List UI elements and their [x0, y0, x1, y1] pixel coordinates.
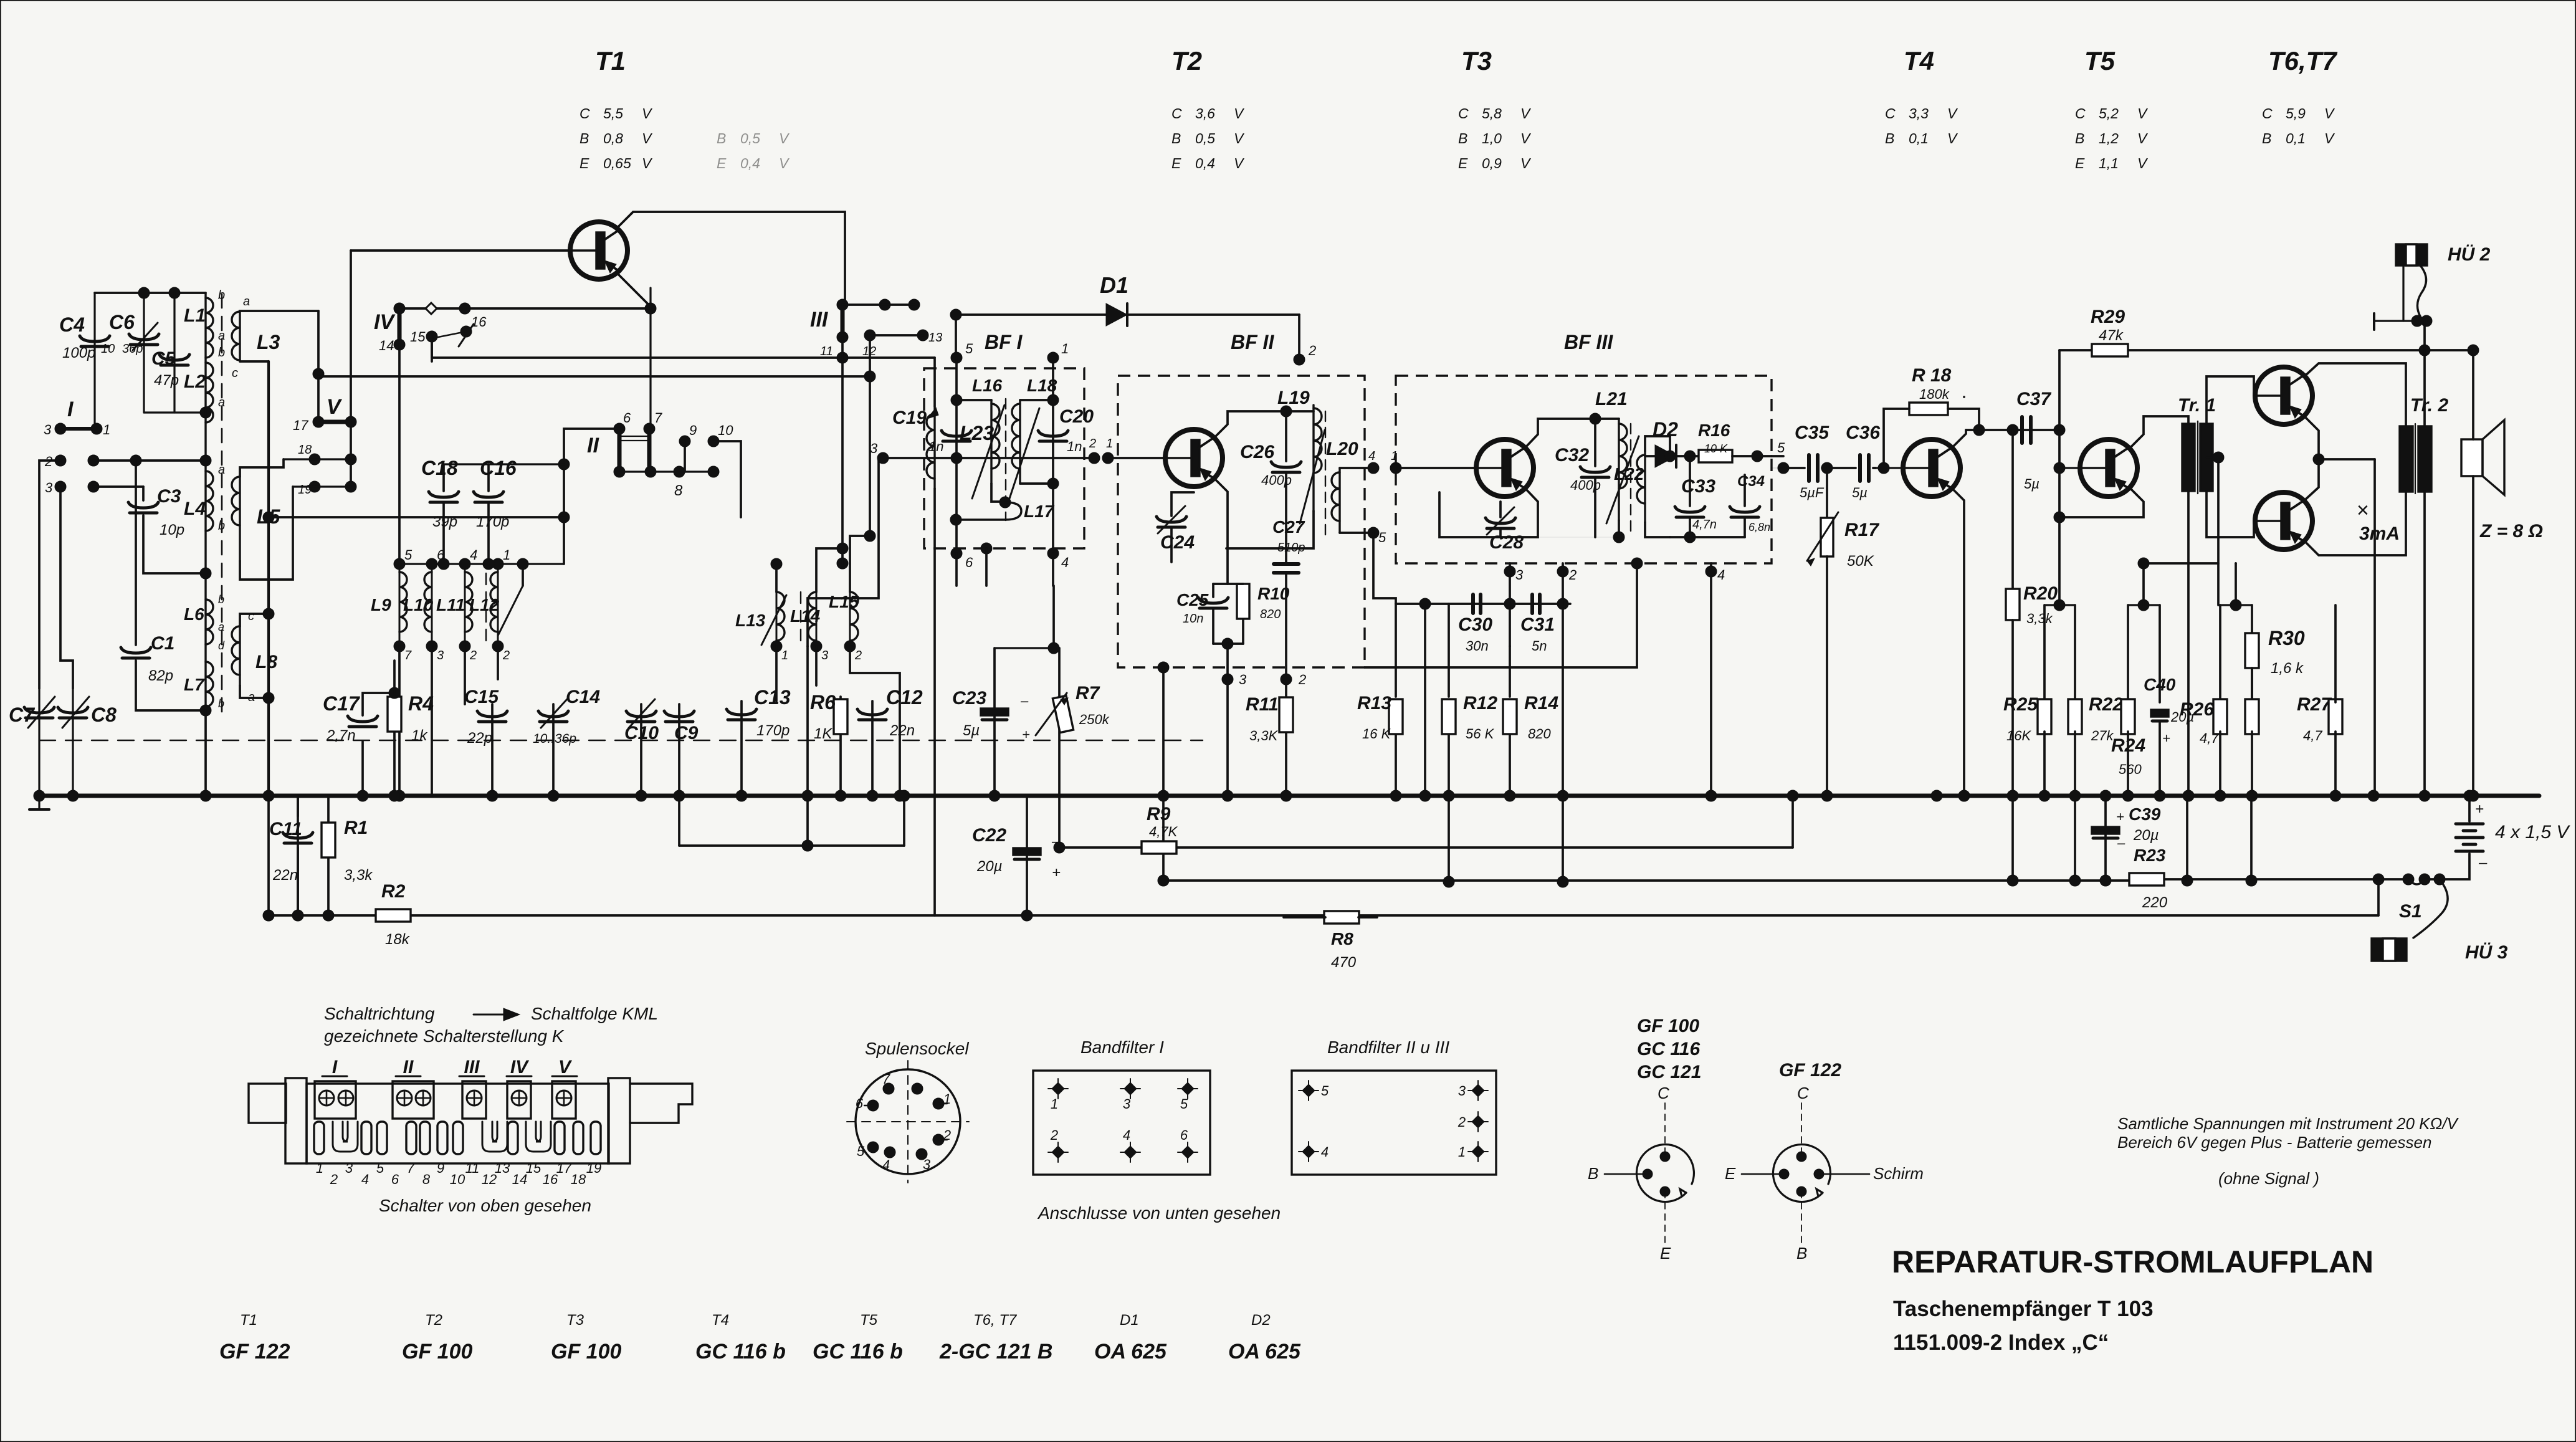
svg-text:10n: 10n	[1183, 612, 1203, 626]
svg-text:L17: L17	[1024, 502, 1055, 521]
svg-text:OA 625: OA 625	[1228, 1340, 1301, 1363]
svg-text:1: 1	[103, 422, 110, 437]
svg-text:T4: T4	[1904, 46, 1934, 75]
svg-text:B: B	[2262, 130, 2271, 146]
svg-text:GF 100: GF 100	[402, 1340, 472, 1363]
svg-text:II: II	[403, 1057, 414, 1077]
svg-text:T2: T2	[1171, 46, 1202, 75]
svg-text:9: 9	[437, 1160, 444, 1176]
svg-text:3: 3	[870, 441, 878, 456]
svg-text:T1: T1	[240, 1312, 257, 1329]
svg-text:0,4: 0,4	[740, 155, 760, 171]
svg-text:1k: 1k	[411, 727, 428, 744]
svg-text:L21: L21	[1595, 389, 1628, 409]
svg-text:C14: C14	[566, 687, 600, 707]
svg-text:5: 5	[404, 547, 413, 563]
svg-text:BF II: BF II	[1231, 331, 1274, 353]
svg-text:V: V	[1234, 130, 1245, 146]
svg-text:1: 1	[1106, 437, 1113, 451]
svg-text:1K: 1K	[814, 725, 832, 742]
svg-text:1,0: 1,0	[1482, 130, 1502, 146]
svg-text:R13: R13	[1357, 693, 1391, 714]
svg-text:250k: 250k	[1079, 712, 1110, 727]
svg-text:V: V	[1234, 105, 1245, 122]
svg-text:3,6: 3,6	[1195, 105, 1215, 122]
svg-text:V: V	[1520, 105, 1532, 122]
svg-text:c: c	[232, 366, 238, 380]
svg-text:3: 3	[437, 649, 444, 662]
svg-text:T4: T4	[712, 1312, 729, 1329]
svg-text:L15: L15	[829, 592, 859, 611]
svg-text:–: –	[2117, 835, 2125, 851]
svg-text:3,3K: 3,3K	[1249, 728, 1279, 743]
svg-text:18: 18	[571, 1172, 586, 1187]
svg-text:R14: R14	[1524, 693, 1558, 714]
svg-text:C11: C11	[269, 819, 302, 839]
svg-text:13: 13	[928, 331, 942, 345]
svg-text:R27: R27	[2297, 694, 2332, 715]
svg-text:20µ: 20µ	[2133, 827, 2159, 844]
svg-text:+: +	[1022, 727, 1030, 742]
svg-text:9: 9	[689, 423, 697, 438]
svg-text:3: 3	[44, 422, 52, 437]
svg-text:R16: R16	[1698, 421, 1730, 440]
svg-text:4: 4	[1123, 1127, 1130, 1143]
svg-text:V: V	[1520, 155, 1532, 171]
svg-text:12: 12	[482, 1172, 497, 1187]
svg-text:V: V	[327, 395, 343, 419]
svg-text:16: 16	[471, 314, 487, 330]
svg-text:Schaltfolge KML: Schaltfolge KML	[531, 1004, 658, 1023]
svg-text:0,9: 0,9	[1482, 155, 1502, 171]
svg-text:R20: R20	[2023, 583, 2058, 604]
svg-text:a: a	[243, 295, 250, 308]
svg-text:C: C	[1171, 105, 1182, 122]
svg-text:3: 3	[1239, 672, 1247, 687]
svg-text:17: 17	[293, 418, 308, 433]
svg-text:3: 3	[1123, 1096, 1131, 1112]
svg-text:4 x 1,5 V: 4 x 1,5 V	[2495, 822, 2570, 843]
svg-text:4: 4	[1717, 567, 1725, 583]
svg-text:50K: 50K	[1847, 553, 1874, 570]
svg-text:C: C	[2262, 105, 2273, 122]
svg-text:C15: C15	[464, 687, 499, 707]
svg-text:3: 3	[821, 649, 828, 662]
svg-text:5,9: 5,9	[2286, 105, 2306, 122]
svg-text:10: 10	[101, 342, 115, 356]
svg-text:Z = 8 Ω: Z = 8 Ω	[2479, 521, 2543, 542]
svg-text:R6: R6	[810, 691, 836, 714]
svg-text:11: 11	[820, 345, 833, 358]
svg-text:+: +	[2116, 809, 2124, 824]
svg-text:4: 4	[882, 1157, 890, 1173]
svg-text:5µ: 5µ	[963, 722, 980, 739]
svg-text:×: ×	[2357, 499, 2369, 522]
svg-text:22p: 22p	[467, 730, 492, 747]
svg-text:Bereich 6V gegen Plus - Bat: Bereich 6V gegen Plus - Batterie gemesse…	[2117, 1133, 2431, 1152]
svg-text:V: V	[779, 130, 790, 146]
svg-text:1: 1	[943, 1091, 951, 1107]
svg-text:L2: L2	[184, 371, 206, 392]
svg-text:2,7n: 2,7n	[326, 727, 356, 744]
svg-text:L18: L18	[1027, 376, 1057, 395]
svg-text:GF 122: GF 122	[1779, 1060, 1841, 1081]
svg-text:B: B	[1885, 130, 1894, 146]
svg-text:19: 19	[586, 1160, 601, 1176]
svg-text:C3: C3	[157, 486, 181, 507]
svg-text:6: 6	[391, 1172, 399, 1187]
svg-text:BF I: BF I	[985, 331, 1023, 353]
svg-text:C1: C1	[151, 633, 174, 654]
svg-text:R 18: R 18	[1912, 365, 1952, 386]
svg-text:10 K: 10 K	[1704, 442, 1728, 455]
svg-text:D1: D1	[1120, 1312, 1139, 1329]
svg-text:22n: 22n	[889, 722, 915, 739]
svg-text:C32: C32	[1555, 445, 1589, 466]
svg-text:C6: C6	[109, 311, 135, 333]
svg-text:GC 116 b: GC 116 b	[695, 1340, 786, 1363]
svg-text:16K: 16K	[2006, 728, 2031, 743]
svg-text:T3: T3	[566, 1312, 584, 1329]
svg-text:C13: C13	[754, 686, 791, 709]
svg-text:14: 14	[379, 338, 394, 353]
svg-text:4: 4	[470, 547, 477, 563]
svg-text:Schirm: Schirm	[1873, 1164, 1924, 1183]
svg-text:C20: C20	[1059, 406, 1094, 427]
svg-text:5: 5	[1378, 530, 1386, 545]
svg-text:C34: C34	[1737, 473, 1765, 490]
svg-text:170p: 170p	[476, 513, 509, 530]
svg-text:L22: L22	[1614, 464, 1644, 484]
svg-text:V: V	[1947, 105, 1958, 122]
svg-text:R30: R30	[2268, 627, 2305, 649]
svg-text:7: 7	[407, 1160, 415, 1176]
svg-text:T6, T7: T6, T7	[973, 1312, 1018, 1329]
svg-text:5: 5	[376, 1160, 384, 1176]
svg-text:10: 10	[718, 423, 733, 438]
svg-text:7: 7	[404, 649, 412, 662]
svg-text:L1: L1	[184, 305, 206, 326]
svg-text:3,3k: 3,3k	[344, 867, 373, 884]
svg-text:E: E	[717, 155, 727, 171]
svg-text:L6: L6	[184, 604, 204, 624]
svg-text:0,4: 0,4	[1195, 155, 1215, 171]
svg-text:13: 13	[495, 1160, 510, 1176]
svg-text:R22: R22	[2089, 694, 2123, 715]
svg-text:0,5: 0,5	[1195, 130, 1215, 146]
svg-text:I: I	[332, 1057, 338, 1077]
svg-text:E: E	[1171, 155, 1181, 171]
svg-text:GF 100: GF 100	[551, 1340, 621, 1363]
svg-text:4: 4	[1321, 1144, 1329, 1160]
svg-text:15: 15	[410, 329, 426, 345]
svg-text:L10: L10	[403, 595, 434, 614]
svg-text:2-GC 121 B: 2-GC 121 B	[939, 1340, 1052, 1363]
svg-text:GC 121: GC 121	[1637, 1062, 1701, 1082]
svg-text:15: 15	[526, 1160, 541, 1176]
svg-text:C28: C28	[1489, 532, 1524, 553]
svg-text:T2: T2	[425, 1312, 442, 1329]
svg-text:III: III	[464, 1057, 480, 1077]
svg-text:820: 820	[1260, 608, 1281, 621]
svg-text:19: 19	[298, 483, 312, 497]
svg-text:470: 470	[1331, 954, 1357, 971]
svg-text:D2: D2	[1251, 1312, 1271, 1329]
svg-text:Tr. 1: Tr. 1	[2178, 395, 2216, 416]
svg-text:5,2: 5,2	[2099, 105, 2119, 122]
svg-text:T1: T1	[595, 46, 626, 75]
svg-text:C: C	[1797, 1084, 1809, 1102]
svg-text:R2: R2	[381, 881, 406, 902]
svg-text:R7: R7	[1076, 683, 1100, 704]
svg-text:T6,T7: T6,T7	[2268, 46, 2337, 75]
svg-text:C25: C25	[1176, 590, 1209, 609]
svg-text:IV: IV	[374, 310, 396, 334]
svg-text:V: V	[1234, 155, 1245, 171]
svg-text:27k: 27k	[2091, 728, 2114, 743]
svg-text:1: 1	[781, 649, 788, 662]
svg-text:T5: T5	[2084, 46, 2116, 75]
svg-text:2: 2	[502, 649, 510, 662]
svg-text:C18: C18	[421, 457, 458, 479]
svg-text:C: C	[1885, 105, 1896, 122]
svg-text:E: E	[1458, 155, 1468, 171]
svg-text:1: 1	[1051, 1096, 1058, 1112]
svg-text:OA 625: OA 625	[1094, 1340, 1167, 1363]
svg-text:C17: C17	[323, 692, 361, 715]
svg-text:L4: L4	[184, 499, 206, 519]
svg-text:R11: R11	[1246, 694, 1279, 715]
svg-text:C23: C23	[952, 688, 986, 709]
svg-text:5: 5	[1777, 440, 1785, 456]
svg-text:0,5: 0,5	[740, 130, 760, 146]
svg-text:BF III: BF III	[1564, 331, 1613, 353]
svg-text:16: 16	[543, 1172, 558, 1187]
svg-text:0,65: 0,65	[603, 155, 631, 171]
svg-text:400p: 400p	[1570, 477, 1601, 493]
svg-text:6: 6	[965, 555, 973, 570]
svg-text:L12: L12	[469, 595, 500, 614]
svg-text:Spulensockel: Spulensockel	[865, 1039, 969, 1058]
svg-text:4: 4	[361, 1172, 369, 1187]
svg-text:E: E	[580, 155, 589, 171]
svg-text:Schalter von oben gesehen: Schalter von oben gesehen	[379, 1196, 591, 1215]
svg-text:20µ: 20µ	[976, 858, 1003, 875]
svg-text:8: 8	[674, 482, 683, 499]
svg-text:R24: R24	[2111, 735, 2145, 756]
svg-text:2: 2	[330, 1172, 338, 1187]
svg-text:1: 1	[316, 1160, 323, 1176]
svg-text:Anschlusse von unten gesehen: Anschlusse von unten gesehen	[1037, 1203, 1281, 1223]
svg-text:5: 5	[965, 341, 973, 356]
svg-text:C9: C9	[674, 723, 699, 743]
svg-text:5µ: 5µ	[2024, 476, 2039, 492]
svg-text:gezeichnete Schalterstellung: gezeichnete Schalterstellung K	[324, 1026, 565, 1046]
svg-text:L11: L11	[436, 595, 465, 614]
svg-text:47k: 47k	[2099, 327, 2124, 344]
svg-text:R10: R10	[1257, 584, 1290, 603]
svg-text:30n: 30n	[1466, 638, 1489, 654]
svg-text:C31: C31	[1520, 614, 1555, 635]
svg-text:10p: 10p	[160, 522, 184, 538]
svg-text:3: 3	[1458, 1083, 1466, 1099]
svg-text:1: 1	[1458, 1144, 1466, 1160]
svg-text:C39: C39	[2129, 805, 2161, 824]
svg-text:18k: 18k	[385, 931, 411, 948]
svg-text:C12: C12	[886, 686, 923, 709]
svg-text:5: 5	[857, 1144, 865, 1159]
svg-text:V: V	[2324, 105, 2335, 122]
svg-text:L3: L3	[257, 331, 280, 353]
svg-text:R9: R9	[1147, 804, 1171, 824]
svg-text:10: 10	[450, 1172, 465, 1187]
svg-text:L16: L16	[972, 376, 1003, 395]
svg-text:5: 5	[1180, 1096, 1188, 1112]
svg-text:T5: T5	[860, 1312, 878, 1329]
svg-text:4,7: 4,7	[2303, 728, 2322, 743]
svg-text:2: 2	[1457, 1114, 1466, 1130]
svg-text:1n: 1n	[1067, 439, 1082, 454]
svg-text:I: I	[67, 398, 74, 421]
svg-text:5µ: 5µ	[1852, 485, 1868, 500]
svg-text:3: 3	[45, 480, 53, 495]
svg-text:C37: C37	[2016, 389, 2051, 409]
svg-text:2: 2	[943, 1127, 951, 1143]
svg-text:V: V	[642, 105, 653, 122]
svg-text:–: –	[1020, 693, 1029, 709]
svg-text:R17: R17	[1844, 520, 1879, 540]
svg-text:Schaltrichtung: Schaltrichtung	[324, 1004, 435, 1023]
svg-text:2: 2	[1568, 567, 1577, 583]
svg-text:56 K: 56 K	[1466, 726, 1495, 742]
svg-text:7: 7	[882, 1071, 890, 1087]
svg-text:B: B	[1171, 130, 1181, 146]
svg-text:C10: C10	[624, 723, 659, 743]
svg-text:V: V	[1947, 130, 1958, 146]
svg-text:C24: C24	[1160, 532, 1195, 553]
svg-text:1: 1	[1061, 341, 1069, 356]
svg-text:Bandfilter II u III: Bandfilter II u III	[1327, 1038, 1449, 1057]
svg-text:3mA: 3mA	[2359, 523, 2400, 544]
svg-text:HÜ 2: HÜ 2	[2448, 244, 2491, 265]
svg-text:1: 1	[503, 547, 510, 563]
svg-text:C8: C8	[91, 704, 117, 726]
svg-text:2: 2	[469, 649, 477, 662]
svg-text:Samtliche Spannungen mit In: Samtliche Spannungen mit Instrument 20 K…	[2117, 1114, 2459, 1133]
svg-text:GF 122: GF 122	[219, 1340, 290, 1363]
svg-text:R25: R25	[2003, 694, 2038, 715]
svg-text:II: II	[587, 434, 599, 457]
svg-text:C30: C30	[1458, 614, 1492, 635]
svg-text:5: 5	[1321, 1083, 1329, 1099]
svg-text:C16: C16	[480, 457, 517, 479]
svg-text:6,8n: 6,8n	[1748, 521, 1770, 533]
svg-text:V: V	[558, 1057, 573, 1077]
svg-text:2: 2	[1050, 1127, 1058, 1143]
svg-text:82p: 82p	[148, 667, 173, 684]
svg-text:IV: IV	[510, 1057, 530, 1077]
svg-text:4: 4	[1368, 449, 1375, 463]
svg-text:B: B	[2075, 130, 2084, 146]
svg-text:5n: 5n	[1532, 638, 1547, 654]
svg-text:820: 820	[1528, 726, 1551, 742]
svg-text:B: B	[717, 130, 726, 146]
svg-text:GC 116: GC 116	[1637, 1039, 1700, 1059]
svg-text:2: 2	[1089, 437, 1096, 451]
svg-text:B: B	[1458, 130, 1467, 146]
svg-text:4: 4	[1061, 555, 1069, 570]
svg-text:R26: R26	[2180, 699, 2214, 720]
svg-text:L14: L14	[790, 606, 821, 626]
svg-text:V: V	[2137, 130, 2149, 146]
svg-text:8: 8	[422, 1172, 431, 1187]
svg-text:V: V	[2137, 155, 2149, 171]
svg-text:C35: C35	[1795, 423, 1829, 443]
svg-text:–: –	[2478, 854, 2488, 871]
svg-text:5,5: 5,5	[603, 105, 623, 122]
svg-text:E: E	[1660, 1244, 1671, 1263]
svg-text:39p: 39p	[432, 513, 457, 530]
svg-text:B: B	[1588, 1164, 1598, 1183]
svg-text:0,8: 0,8	[603, 130, 623, 146]
svg-text:2: 2	[1308, 343, 1316, 358]
svg-text:10..36p: 10..36p	[533, 732, 576, 746]
svg-text:GF 100: GF 100	[1637, 1016, 1699, 1036]
svg-text:C: C	[580, 105, 590, 122]
svg-text:17: 17	[556, 1160, 572, 1176]
svg-text:D2: D2	[1653, 418, 1678, 441]
svg-text:REPARATUR-STROMLAUFPLAN: REPARATUR-STROMLAUFPLAN	[1892, 1244, 2373, 1279]
svg-text:560: 560	[2119, 762, 2142, 777]
svg-text:16 K: 16 K	[1362, 726, 1391, 742]
svg-text:1,1: 1,1	[2099, 155, 2119, 171]
svg-text:C7: C7	[9, 704, 36, 726]
svg-text:C: C	[1658, 1084, 1669, 1102]
svg-text:C26: C26	[1240, 442, 1274, 462]
svg-text:220: 220	[2142, 894, 2168, 911]
svg-text:HÜ 3: HÜ 3	[2465, 942, 2508, 963]
svg-text:GC 116 b: GC 116 b	[813, 1340, 903, 1363]
svg-text:6: 6	[856, 1096, 864, 1111]
svg-text:11: 11	[465, 1160, 480, 1176]
svg-text:2: 2	[1298, 672, 1306, 687]
svg-text:0,1: 0,1	[1909, 130, 1929, 146]
svg-text:E: E	[2075, 155, 2085, 171]
svg-text:B: B	[580, 130, 589, 146]
svg-text:(ohne Signal ): (ohne Signal )	[2218, 1169, 2319, 1188]
svg-text:6: 6	[623, 410, 631, 426]
svg-text:c: c	[248, 609, 254, 623]
svg-text:2: 2	[854, 649, 862, 662]
svg-text:C4: C4	[59, 313, 85, 336]
svg-text:R1: R1	[344, 818, 368, 838]
svg-text:D1: D1	[1100, 272, 1128, 298]
svg-text:5µF: 5µF	[1800, 485, 1825, 500]
svg-text:400p: 400p	[1261, 472, 1292, 488]
svg-text:180k: 180k	[1919, 386, 1950, 402]
svg-text:V: V	[642, 155, 653, 171]
svg-text:L19: L19	[1277, 388, 1310, 408]
svg-text:V: V	[779, 155, 790, 171]
svg-text:L7: L7	[184, 675, 205, 694]
svg-text:+: +	[1052, 864, 1061, 881]
svg-text:+: +	[2475, 801, 2484, 818]
svg-text:V: V	[2324, 130, 2335, 146]
svg-text:Taschenempfänger T 103: Taschenempfänger T 103	[1893, 1297, 2154, 1321]
svg-text:3,3: 3,3	[1909, 105, 1929, 122]
svg-text:3: 3	[923, 1157, 931, 1172]
svg-text:V: V	[2137, 105, 2149, 122]
